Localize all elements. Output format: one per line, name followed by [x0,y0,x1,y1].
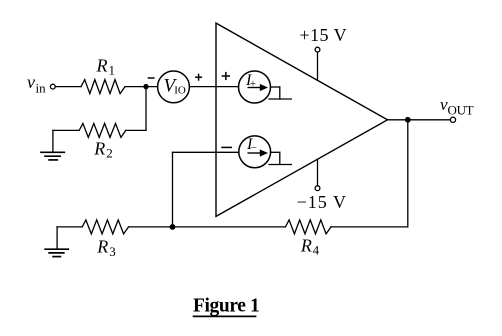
svg-text:R: R [93,138,105,158]
svg-text:v: v [27,72,35,92]
svg-text:3: 3 [109,244,116,259]
svg-text:+15 V: +15 V [300,25,348,45]
svg-text:−: − [251,143,257,154]
svg-text:R: R [300,235,312,255]
svg-text:4: 4 [313,242,320,257]
svg-text:2: 2 [106,146,113,161]
svg-text:R: R [96,236,108,256]
svg-text:+: + [250,79,256,90]
svg-text:R: R [96,55,108,75]
svg-text:IO: IO [174,85,186,97]
svg-text:OUT: OUT [448,103,474,118]
svg-text:−15 V: −15 V [297,192,347,212]
svg-text:1: 1 [109,63,116,78]
svg-text:in: in [36,81,47,96]
svg-text:Figure 1: Figure 1 [193,296,259,317]
